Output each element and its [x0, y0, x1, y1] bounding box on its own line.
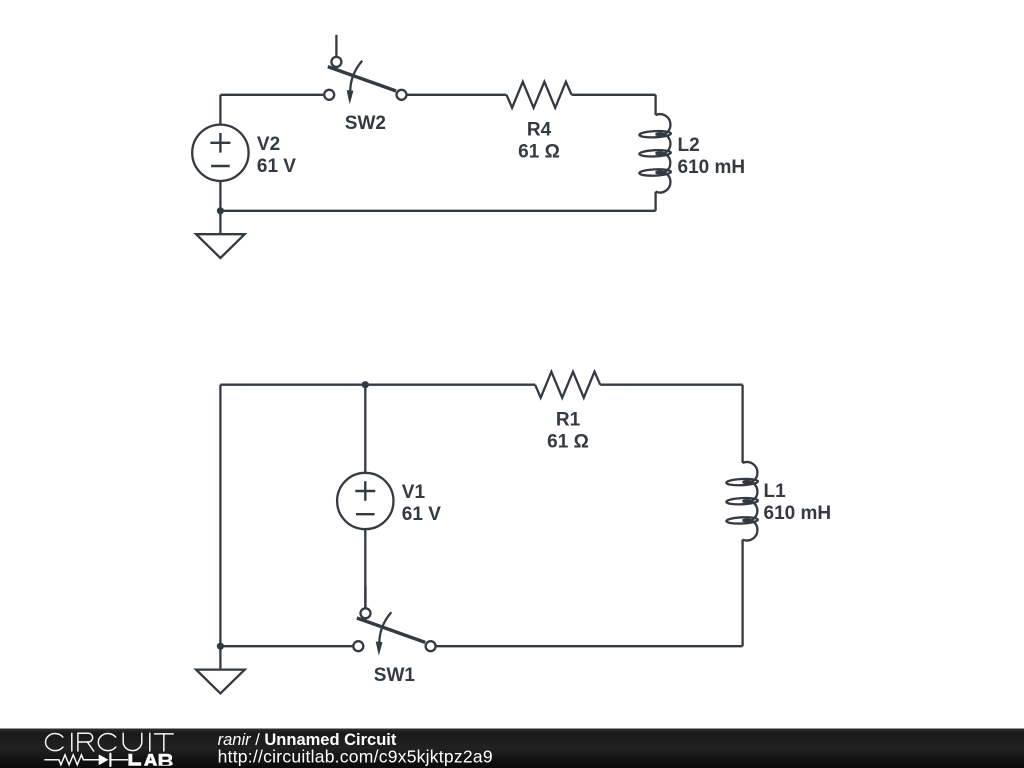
svg-text:R1: R1 [556, 410, 581, 431]
svg-text:SW2: SW2 [345, 113, 386, 134]
svg-text:V1: V1 [402, 482, 426, 503]
svg-text:V2: V2 [257, 134, 280, 155]
svg-text:61 Ω: 61 Ω [547, 432, 589, 453]
svg-text:R4: R4 [527, 120, 552, 141]
svg-text:SW1: SW1 [374, 665, 416, 686]
svg-text:610 mH: 610 mH [764, 503, 832, 524]
svg-text:61 Ω: 61 Ω [518, 142, 560, 163]
svg-text:610 mH: 610 mH [678, 157, 746, 178]
svg-text:L2: L2 [678, 135, 700, 156]
svg-text:L1: L1 [764, 481, 787, 502]
svg-text:http://circuitlab.com/c9x5kjkt: http://circuitlab.com/c9x5kjktpz2a9 [218, 746, 493, 766]
svg-text:61 V: 61 V [257, 156, 296, 177]
svg-text:61 V: 61 V [402, 504, 441, 525]
